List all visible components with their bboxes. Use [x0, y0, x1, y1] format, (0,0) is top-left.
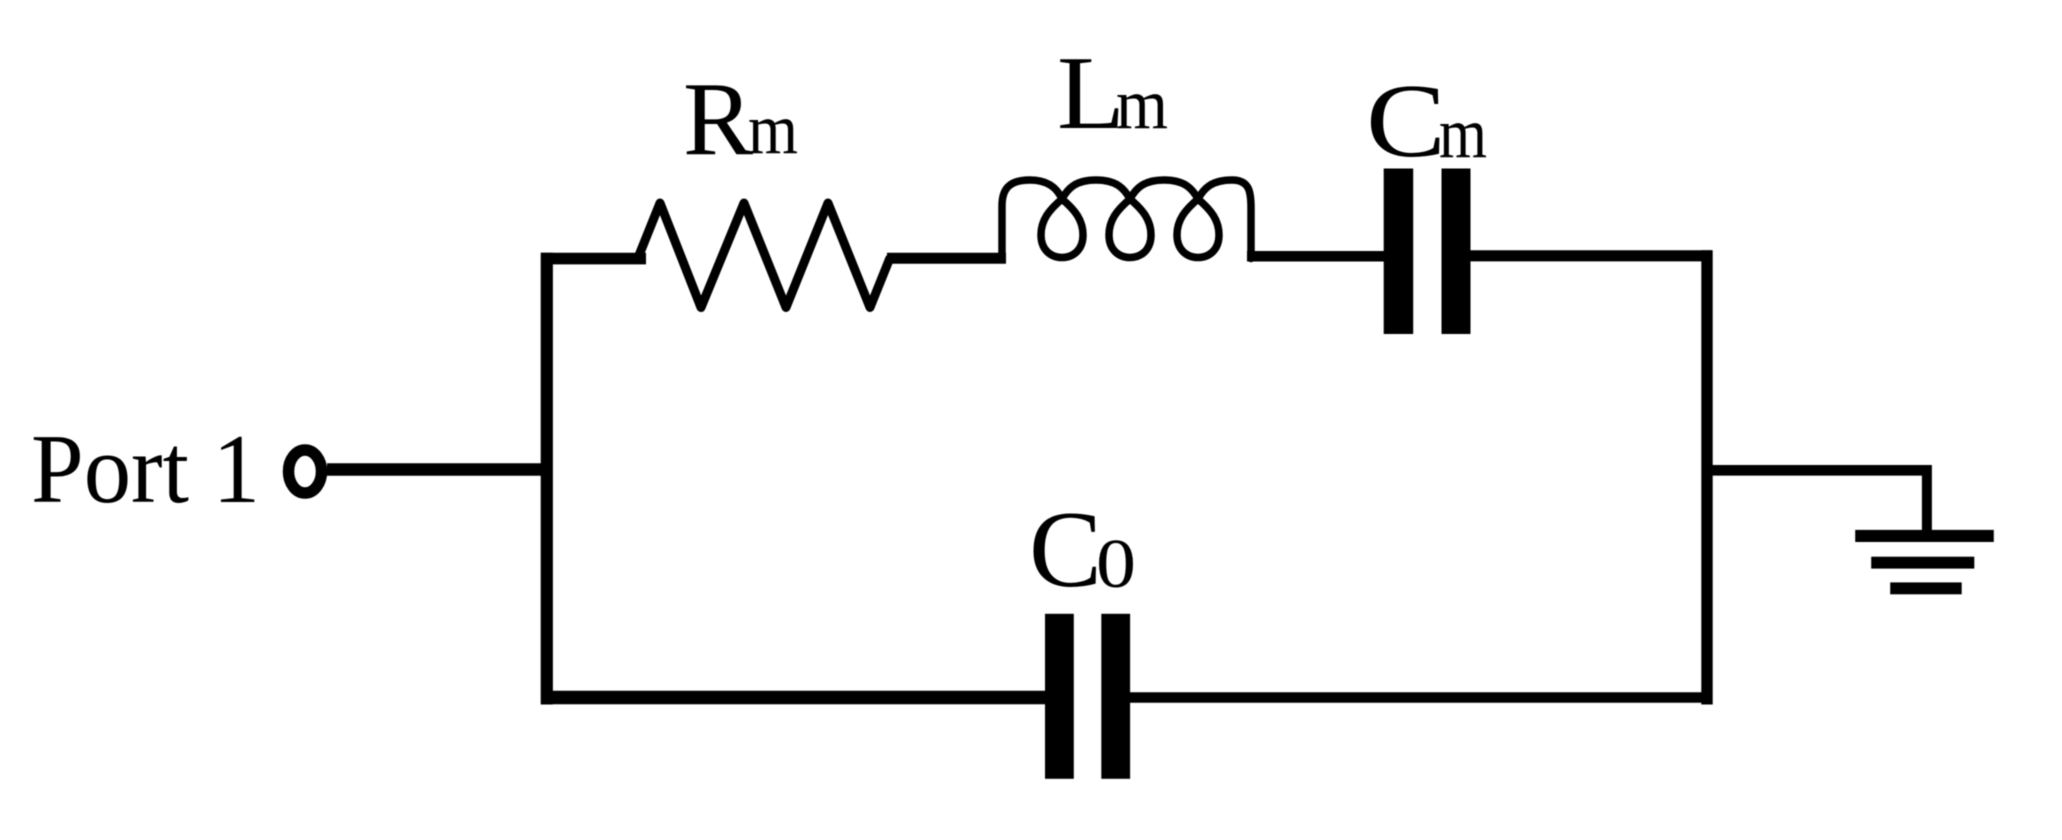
wire: bottom branch, capacitor C0 to right vertical: [1130, 692, 1713, 702]
wire: inductor to capacitor Cm: [1247, 251, 1386, 262]
svg-text:C: C: [1366, 62, 1446, 179]
wire: left vertical branch (node splitting top/bottom): [541, 253, 553, 705]
ground symbol bar 2: [1871, 557, 1974, 569]
port terminal (open circle): [289, 450, 322, 493]
wire: capacitor Cm to right vertical branch: [1470, 250, 1712, 261]
svg-text:0: 0: [1096, 526, 1136, 603]
capacitor Cm right plate: [1442, 169, 1471, 335]
wire: top branch, node to resistor: [541, 253, 646, 265]
svg-text:Port 1: Port 1: [31, 415, 260, 524]
wire: bottom branch, left segment to capacitor C0: [541, 691, 1046, 705]
capacitor Cm left plate: [1384, 169, 1414, 335]
capacitor C0 left plate: [1045, 614, 1074, 779]
wire: right vertical branch: [1701, 250, 1712, 704]
inductor Lm (coil with 4 humps, 3 loops): [1002, 180, 1251, 259]
svg-text:L: L: [1057, 34, 1125, 151]
wire: resistor to inductor: [887, 253, 1006, 264]
ground symbol bar 1: [1855, 530, 1994, 542]
wire: right node to ground: [1702, 465, 1927, 476]
svg-text:R: R: [683, 60, 753, 177]
svg-text:m: m: [1116, 64, 1168, 144]
wire: port terminal to left node: [327, 463, 550, 476]
ground symbol bar 3: [1890, 582, 1962, 594]
resistor Rm (zigzag): [638, 203, 890, 308]
wire: ground stub down: [1922, 465, 1932, 530]
capacitor C0 right plate: [1101, 614, 1130, 779]
svg-text:m: m: [1439, 93, 1487, 173]
svg-text:C: C: [1029, 489, 1102, 610]
svg-text:m: m: [748, 89, 798, 169]
